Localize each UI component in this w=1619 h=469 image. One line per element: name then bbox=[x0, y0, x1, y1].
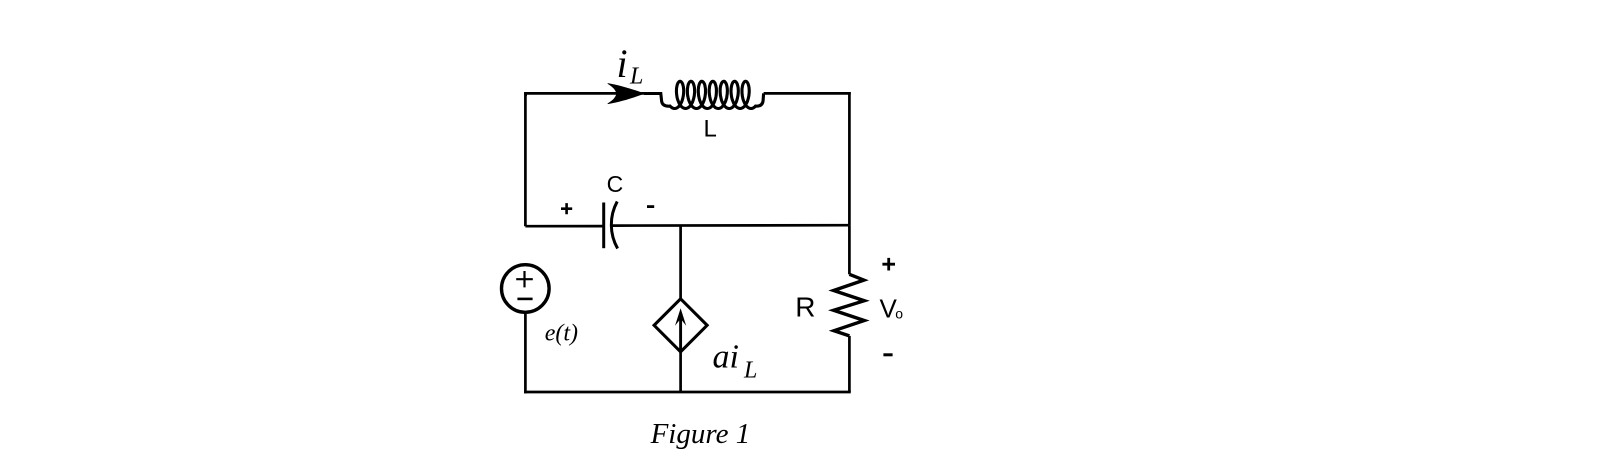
capacitor C left plate bbox=[602, 203, 605, 249]
wire middle horizontal left (to capacitor) bbox=[525, 225, 603, 228]
svg-text:L: L bbox=[629, 63, 643, 89]
voltage source e(t) circle bbox=[502, 265, 550, 313]
label + (Vo polarity) bbox=[882, 258, 895, 271]
svg-text:o: o bbox=[895, 306, 903, 322]
dependent current source ai_L diamond bbox=[654, 299, 707, 352]
inductor L (coil) bbox=[644, 81, 764, 108]
svg-text:i: i bbox=[617, 41, 628, 86]
resistor R zigzag bbox=[834, 274, 865, 336]
wire dependent source upper lead bbox=[679, 225, 682, 298]
wire left vertical (node C up to top-left corner) bbox=[525, 95, 527, 226]
svg-text:L: L bbox=[704, 116, 717, 143]
voltage source - sign bbox=[517, 298, 532, 301]
svg-text:R: R bbox=[795, 292, 815, 323]
svg-text:e(t): e(t) bbox=[545, 321, 578, 347]
svg-text:ai: ai bbox=[713, 339, 739, 376]
capacitor C right curved plate bbox=[611, 202, 617, 249]
label + (capacitor polarity) bbox=[561, 203, 572, 214]
wire left vertical lower (source to bottom-left corner) bbox=[524, 313, 527, 394]
dependent source arrow shaft bbox=[679, 313, 682, 352]
wire top rail right (inductor to top-right corner) bbox=[764, 92, 851, 95]
dependent source arrow head bbox=[675, 308, 686, 326]
wire dependent source lower lead bbox=[679, 352, 682, 392]
wire right vertical lower (resistor to bottom rail) bbox=[848, 336, 851, 392]
svg-text:L: L bbox=[743, 357, 757, 383]
svg-text:Figure 1: Figure 1 bbox=[650, 418, 751, 450]
current arrow i_L head bbox=[608, 83, 645, 104]
wire bottom rail bbox=[524, 391, 851, 394]
wire right vertical middle (node B to resistor) bbox=[848, 225, 851, 274]
wire top rail left (top-left corner to inductor) bbox=[524, 92, 661, 95]
label - (capacitor polarity) bbox=[647, 205, 654, 208]
wire right vertical upper (top-right corner to node B) bbox=[848, 92, 851, 225]
svg-text:C: C bbox=[607, 171, 624, 197]
label - (Vo polarity) bbox=[883, 353, 892, 356]
voltage source + sign bbox=[516, 271, 533, 287]
wire middle horizontal right (capacitor to node B) bbox=[612, 224, 849, 227]
